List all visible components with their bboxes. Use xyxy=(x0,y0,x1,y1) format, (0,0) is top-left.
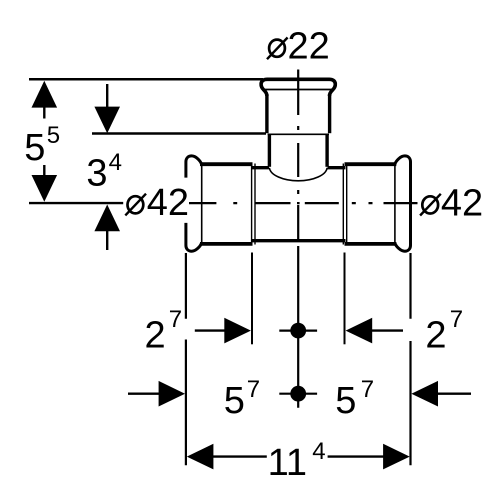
crotch arc inside body xyxy=(269,168,327,181)
5-7 row left: stem xyxy=(128,393,159,395)
5-7 row right: arrowhead xyxy=(411,381,438,407)
svg-text:7: 7 xyxy=(450,306,463,333)
center mark dot upper xyxy=(290,323,306,339)
5-5 chain: up arrowhead xyxy=(32,81,58,108)
right insertion-depth extension line xyxy=(344,253,346,345)
svg-text:3: 3 xyxy=(86,152,107,194)
branch socket left wall xyxy=(265,94,268,133)
2-7 row left: stem xyxy=(195,329,225,331)
right socket bottom outline xyxy=(345,242,397,246)
dimension line at main axis level (left) xyxy=(29,202,123,204)
body top outline right of branch xyxy=(328,166,346,169)
right socket step edge pair xyxy=(342,164,344,245)
left socket step edge pair xyxy=(251,164,253,245)
3-4 chain: down arrowhead xyxy=(94,107,120,134)
11-4 row: left line xyxy=(213,455,267,457)
center mark dot lower xyxy=(290,386,306,402)
svg-text:5: 5 xyxy=(47,122,60,149)
2-7 row right: stem xyxy=(372,329,403,331)
5-5 chain: lower stem xyxy=(43,165,45,176)
5-7 row left: arrowhead xyxy=(159,381,185,407)
svg-text:4: 4 xyxy=(109,149,122,176)
center mark dot upper crosshair xyxy=(279,330,317,332)
svg-text:5: 5 xyxy=(24,127,45,169)
diameter symbol of left ø42 xyxy=(127,196,143,213)
left outer extension line xyxy=(185,253,187,319)
svg-text:11: 11 xyxy=(268,442,307,484)
svg-text:7: 7 xyxy=(361,376,374,403)
left insertion-depth extension line xyxy=(251,253,253,345)
center extension line xyxy=(297,246,299,408)
11-4 row: right arrowhead xyxy=(383,444,410,470)
svg-text:7: 7 xyxy=(169,306,182,333)
branch socket step line xyxy=(268,133,329,135)
left socket top outline xyxy=(200,162,253,166)
svg-text:7: 7 xyxy=(247,376,260,403)
right bead inner edge xyxy=(394,163,396,244)
branch lower right wall xyxy=(325,135,328,167)
branch bead underline xyxy=(265,89,333,91)
svg-text:4: 4 xyxy=(312,438,325,465)
3-4 chain: up arrowhead xyxy=(94,205,120,232)
diameter symbol of ø22 xyxy=(269,40,285,57)
branch socket bead (top ø22 end) xyxy=(261,79,335,96)
left socket bottom outline xyxy=(200,242,253,246)
svg-text:42: 42 xyxy=(147,182,189,224)
left bead inner edge xyxy=(201,163,203,244)
branch lower left wall xyxy=(268,135,271,167)
11-4 row: left arrowhead xyxy=(187,444,214,470)
left end bead upper hook xyxy=(186,156,202,178)
3-4 chain: lower stem xyxy=(106,231,108,250)
main horizontal centerline (dash-dot) xyxy=(189,202,418,204)
left end bead lower hook xyxy=(186,223,202,251)
svg-text:22: 22 xyxy=(288,26,330,68)
right socket top outline xyxy=(345,162,397,166)
center mark dot lower crosshair xyxy=(279,393,317,395)
svg-text:42: 42 xyxy=(441,183,483,225)
svg-text:2: 2 xyxy=(425,314,446,356)
branch socket right wall xyxy=(328,94,331,133)
right outer extension line xyxy=(409,253,411,319)
body top outline left of branch xyxy=(252,166,269,169)
5-5 chain: down arrowhead xyxy=(32,175,58,202)
2-7 row right: arrowhead xyxy=(346,318,373,344)
2-7 row left: arrowhead xyxy=(224,318,251,344)
dimension line at branch socket depth level xyxy=(92,132,266,134)
body bottom outline xyxy=(252,239,346,242)
diameter symbol of right ø42 xyxy=(422,196,438,213)
5-5 chain: upper stem xyxy=(43,107,45,119)
right end bead xyxy=(395,156,411,251)
3-4 chain: upper stem xyxy=(106,84,108,107)
svg-text:5: 5 xyxy=(224,380,245,422)
5-7 row right: stem xyxy=(437,393,471,395)
branch vertical centerline (dash-dot) xyxy=(297,70,299,240)
11-4 row: right line xyxy=(328,455,384,457)
top dimension line (branch end level) xyxy=(29,78,263,81)
svg-text:2: 2 xyxy=(145,314,166,356)
svg-text:5: 5 xyxy=(335,380,356,422)
